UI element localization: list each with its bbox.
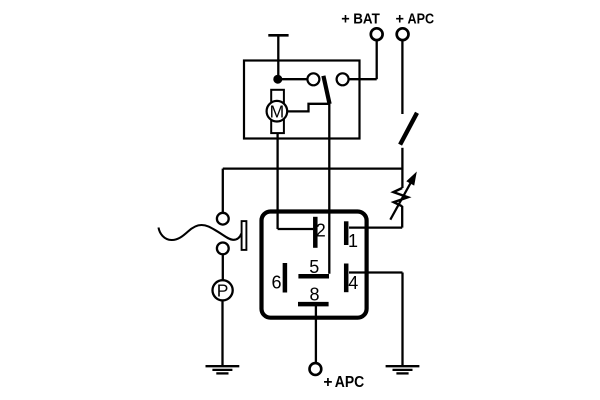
svg-text:6: 6 — [272, 273, 282, 293]
svg-text:+: + — [396, 12, 404, 28]
svg-text:M: M — [270, 102, 285, 122]
svg-text:APC: APC — [335, 374, 364, 391]
svg-text:+: + — [323, 374, 332, 391]
svg-text:BAT: BAT — [353, 12, 380, 28]
svg-text:APC: APC — [408, 12, 435, 28]
svg-text:2: 2 — [316, 220, 326, 240]
svg-text:4: 4 — [348, 273, 358, 293]
svg-text:1: 1 — [348, 231, 358, 251]
svg-text:+: + — [341, 12, 349, 28]
svg-text:8: 8 — [310, 285, 320, 305]
svg-text:5: 5 — [309, 257, 319, 277]
svg-text:P: P — [217, 281, 229, 301]
